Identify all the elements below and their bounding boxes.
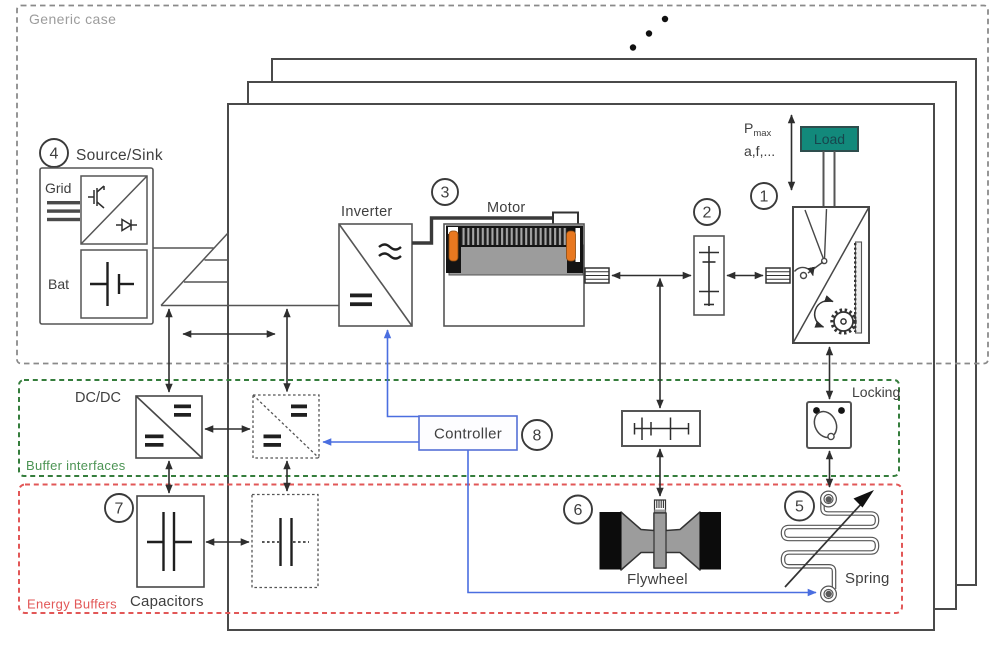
dc bus line xyxy=(161,305,339,307)
wire inverter to motor (thick) xyxy=(412,218,553,243)
svg-text:3: 3 xyxy=(441,185,450,202)
circled 4 xyxy=(40,139,68,167)
arrow load to locking xyxy=(829,347,831,399)
svg-text:a,f,...: a,f,... xyxy=(744,143,775,159)
svg-text:Source/Sink: Source/Sink xyxy=(76,147,163,164)
shaft arrow gearbox-load xyxy=(727,275,763,277)
circled 6 xyxy=(564,496,592,524)
svg-text:Spring: Spring xyxy=(845,570,890,587)
capacitor symbol xyxy=(147,512,192,571)
shaft arrow motor-gearbox xyxy=(612,275,691,277)
IGBT glyph xyxy=(88,186,104,208)
svg-text:Load: Load xyxy=(814,131,845,147)
svg-text:Controller: Controller xyxy=(434,426,502,443)
blue wire controller to spring xyxy=(468,450,816,593)
Bat box xyxy=(81,250,147,318)
blue wire controller to dashed dcdc xyxy=(323,441,419,443)
capacitors box C7 xyxy=(137,496,204,587)
battery symbol xyxy=(90,262,134,306)
dcdc converter dashed xyxy=(253,395,319,458)
pendulum release xyxy=(795,209,827,279)
outer dashed boundary Generic case xyxy=(17,6,988,364)
Load box xyxy=(801,127,858,151)
svg-text:4: 4 xyxy=(50,146,59,163)
diode glyph xyxy=(116,220,137,231)
svg-text:7: 7 xyxy=(115,501,124,518)
grid symbol (3-phase bars) xyxy=(47,201,80,221)
region Buffer interfaces (green dashed) xyxy=(19,380,899,476)
svg-text:DC/DC: DC/DC xyxy=(75,390,121,406)
arrow dcdc pair xyxy=(205,428,250,430)
circled 3 xyxy=(432,179,458,205)
ramp (stepped wedge) xyxy=(161,233,228,306)
inverter U-inv xyxy=(339,224,412,326)
locking mechanism box xyxy=(807,402,851,448)
spring tube xyxy=(783,493,877,600)
svg-text:Bat: Bat xyxy=(48,276,69,292)
dashed capacitor box xyxy=(252,495,318,588)
svg-text:Energy Buffers: Energy Buffers xyxy=(27,597,117,612)
blue wire controller to inverter xyxy=(388,330,420,417)
svg-text:Motor: Motor xyxy=(487,200,526,216)
motor M xyxy=(444,224,584,326)
arrow coupling to flywheel xyxy=(659,449,661,496)
circled 5 xyxy=(785,492,814,521)
circled 1 xyxy=(751,183,777,209)
svg-text:Flywheel: Flywheel xyxy=(627,571,688,588)
sheet back xyxy=(272,59,976,585)
controller box U8 xyxy=(419,416,517,450)
svg-text:8: 8 xyxy=(533,428,542,445)
wire source/sink to ramp xyxy=(153,247,214,249)
rack xyxy=(855,242,861,333)
gearbox G xyxy=(694,236,724,315)
circled 8 xyxy=(522,420,552,450)
circled 7 xyxy=(105,494,133,522)
svg-text:1: 1 xyxy=(760,189,769,206)
spring variable-rate arrow xyxy=(785,502,863,587)
dcdc converter solid xyxy=(136,396,202,458)
load mechanism box 1 xyxy=(793,207,869,343)
svg-text:Buffer interfaces: Buffer interfaces xyxy=(26,458,126,473)
Pmax double arrow xyxy=(791,115,793,190)
coupling symbol xyxy=(634,418,689,441)
svg-text:Grid: Grid xyxy=(45,180,71,196)
svg-text:Generic case: Generic case xyxy=(29,11,116,27)
dashed capacitor symbol xyxy=(262,518,309,566)
arrow locking to spring xyxy=(829,451,831,487)
arrow bus to DC/DC xyxy=(168,309,170,392)
svg-text:5: 5 xyxy=(795,499,804,516)
flywheel FW xyxy=(600,500,722,570)
load shaft lines xyxy=(824,151,835,206)
svg-text:Capacitors: Capacitors xyxy=(130,593,204,610)
ellipsis dots xyxy=(630,16,668,51)
Source/Sink outer box xyxy=(40,168,153,324)
motor shaft (splined) xyxy=(585,268,609,283)
region Energy Buffers (red dashed) xyxy=(19,485,902,614)
branch arrow shaft to coupling xyxy=(659,279,661,409)
gear xyxy=(815,301,855,333)
horizontal bus exchange arrow xyxy=(183,333,275,335)
arrow dcdc to capacitors xyxy=(168,461,170,493)
circled 2 xyxy=(694,199,720,225)
arrow bus to dashed DC/DC xyxy=(286,309,288,392)
sheet front xyxy=(228,104,934,630)
arrow capacitors pair xyxy=(206,541,249,543)
svg-text:6: 6 xyxy=(574,502,583,519)
coupling box xyxy=(622,411,700,446)
arrow dashed dcdc to dashed capacitor xyxy=(286,461,288,491)
svg-text:Locking: Locking xyxy=(852,384,900,400)
svg-text:Inverter: Inverter xyxy=(341,204,393,220)
load shaft (splined) xyxy=(766,268,790,283)
motor terminal box xyxy=(553,213,578,225)
AC/DC converter box xyxy=(81,176,147,244)
svg-text:2: 2 xyxy=(703,205,712,222)
sheet middle xyxy=(248,82,956,609)
